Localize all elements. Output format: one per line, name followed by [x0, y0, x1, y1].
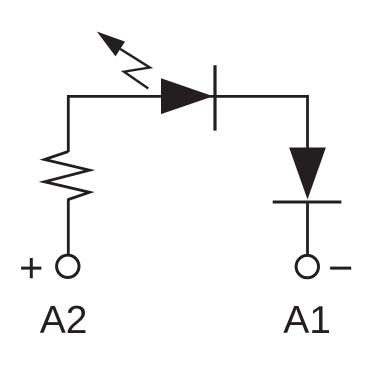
- LED D1 anode triangle: [161, 78, 213, 114]
- svg-text:A1: A1: [283, 299, 331, 342]
- LED light-emission arrow head: [97, 32, 125, 57]
- LED D1 cathode bar: [213, 65, 216, 130]
- minus sign at A1: [330, 267, 351, 270]
- terminal A1 circle: [296, 255, 318, 277]
- terminal A2 circle: [57, 255, 79, 277]
- diode D2 cathode bar: [273, 201, 342, 204]
- LED light-emission arrow zigzag shaft: [120, 49, 150, 89]
- wire: left vertical + top horizontal + right vertical: [68, 96, 307, 152]
- svg-text:A2: A2: [40, 299, 88, 342]
- plus sign at A2: [21, 258, 41, 278]
- wire: diode cathode to terminal A1: [306, 202, 309, 256]
- diode D2 triangle (pointing down): [289, 148, 326, 200]
- wire: resistor bottom to terminal A2: [67, 199, 70, 257]
- resistor R1 (zigzag): [45, 152, 90, 200]
